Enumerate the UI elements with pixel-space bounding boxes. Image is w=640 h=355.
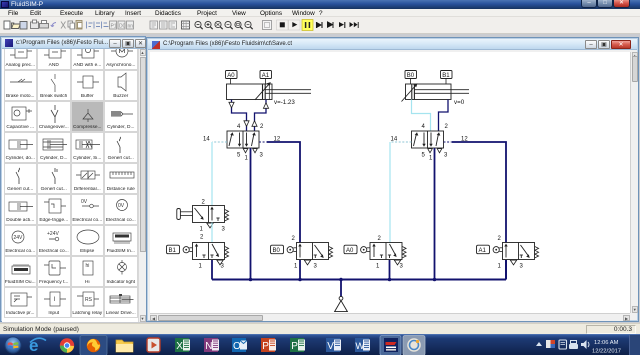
svg-text:2: 2 — [202, 200, 206, 206]
svg-text:B0: B0 — [273, 248, 281, 254]
svg-text:2: 2 — [260, 124, 264, 130]
svg-text:3: 3 — [400, 264, 404, 270]
OneNote — [204, 338, 219, 352]
limit valve A0 (3/2 roller, not actuated) — [370, 243, 402, 260]
valve B port labels — [391, 124, 469, 162]
svg-text:D0: D0 — [119, 24, 126, 30]
svg-text:A1: A1 — [479, 248, 487, 254]
wire cylinder A rod-port to valve A port 2 — [255, 100, 267, 132]
svg-text:B1: B1 — [169, 248, 177, 254]
Visio — [326, 338, 341, 352]
position tag B1 — [441, 71, 453, 79]
svg-text:A1: A1 — [262, 73, 270, 79]
valve A pilot 14 dashed stub — [212, 141, 227, 143]
valve B : 5/2-way double-pilot valve — [412, 131, 444, 148]
svg-text:1: 1 — [200, 227, 204, 233]
svg-text:2: 2 — [200, 235, 204, 241]
FluidSIM running (pressed) — [380, 336, 401, 355]
flow arrow down (cap line, upper) — [229, 102, 234, 108]
valve B pilot 14 dashed stub — [390, 141, 412, 143]
svg-text:1: 1 — [429, 156, 433, 162]
svg-text:1: 1 — [498, 264, 502, 270]
svg-text:3: 3 — [260, 153, 264, 159]
flow arrow up (rod line) — [263, 103, 268, 109]
flow arrow down (above valve port 4) — [244, 121, 249, 127]
svg-text:4: 4 — [237, 124, 241, 130]
IE — [29, 336, 46, 355]
svg-text:nn: nn — [128, 24, 134, 30]
taskbar — [0, 334, 640, 355]
pushbutton valve (start button 3/2) — [193, 206, 225, 223]
media player — [147, 338, 160, 352]
svg-text:A0: A0 — [346, 248, 354, 254]
wire valve A1 port 1 to supply bus — [505, 260, 507, 280]
svg-text:v=-1.23: v=-1.23 — [274, 99, 295, 106]
paint-like app (button) — [403, 336, 425, 355]
svg-text:12/22/2017: 12/22/2017 — [592, 349, 621, 355]
wire bus to compressed air supply — [340, 280, 342, 297]
valve B pilot 12 dashed stub — [444, 141, 453, 143]
svg-text:P: P — [262, 341, 269, 352]
v scrollbar — [630, 52, 638, 313]
junction node at x=249.5 — [249, 278, 253, 282]
svg-text:24V: 24V — [14, 235, 24, 241]
svg-text:14: 14 — [203, 137, 210, 143]
svg-text:P: P — [291, 341, 298, 352]
svg-text:I: I — [53, 297, 55, 303]
svg-text:3: 3 — [221, 264, 225, 270]
status bar — [0, 323, 640, 334]
library panel window — [0, 36, 146, 322]
valve A port labels — [203, 124, 281, 162]
svg-text:+24V: +24V — [47, 231, 59, 237]
h scrollbar — [150, 313, 630, 321]
valve A1 port labels — [498, 236, 524, 269]
svg-text:2: 2 — [445, 124, 449, 130]
valve B0 port labels — [292, 236, 318, 269]
svg-text:5: 5 — [237, 153, 241, 159]
Firefox (active button) — [80, 336, 107, 355]
menu bar — [0, 9, 640, 17]
svg-text:4: 4 — [422, 124, 426, 130]
wire cylinder B rod-port to valve B port 2 — [439, 100, 449, 132]
svg-text:P1: P1 — [111, 24, 117, 30]
svg-text:2: 2 — [292, 236, 296, 242]
sensor tick A0 — [230, 79, 232, 85]
junction node at x=388.5 — [388, 278, 392, 282]
valve A0 port labels — [376, 236, 404, 269]
sensor tick A1 — [265, 79, 267, 85]
wire valve B port 1 to supply bus — [434, 148, 436, 280]
wire cylinder A cap-port to valve A port 4 — [232, 100, 247, 132]
limit valve B1 (3/2 roller, not actuated) — [193, 243, 225, 260]
sensor tick B0 — [410, 79, 412, 85]
svg-text:5: 5 — [422, 153, 426, 159]
svg-text:1: 1 — [245, 156, 249, 162]
junction node at x=299 — [298, 278, 302, 282]
svg-text:O: O — [233, 341, 241, 352]
svg-text:0V: 0V — [81, 199, 88, 205]
pushbutton valve port labels — [200, 200, 226, 233]
Publisher — [290, 338, 305, 352]
app title bar — [0, 0, 640, 9]
wire valve A pilot 12 from valve B0 output — [267, 142, 300, 243]
svg-text:RS: RS — [85, 297, 93, 303]
wire cylinder B cap-port to valve B port 4 (unpressurized) — [412, 100, 431, 132]
cylinder A (double-acting, extended) — [227, 82, 312, 100]
position tag B0 — [405, 71, 417, 79]
svg-text:12:06 AM: 12:06 AM — [594, 340, 619, 346]
svg-text:1: 1 — [199, 264, 203, 270]
wire valve A port 1 to supply bus — [250, 148, 252, 280]
cylinder B (double-acting, retracted) — [402, 83, 470, 101]
limit valve A1 (3/2 roller, actuated) — [503, 243, 535, 260]
wire valve B0 port 1 to supply bus — [299, 260, 301, 280]
svg-text:B0: B0 — [407, 73, 415, 79]
svg-text:1: 1 — [294, 264, 298, 270]
svg-text:v=0: v=0 — [454, 99, 465, 106]
svg-text:N: N — [205, 341, 212, 352]
svg-text:2: 2 — [378, 236, 382, 242]
supply bus wire — [212, 279, 506, 281]
svg-text:B1: B1 — [442, 73, 450, 79]
svg-text:X: X — [176, 341, 183, 352]
svg-text:14: 14 — [391, 137, 398, 143]
Explorer folder — [116, 340, 133, 352]
svg-text:3: 3 — [520, 264, 524, 270]
compressed air supply — [335, 296, 348, 311]
svg-text:V: V — [327, 341, 334, 352]
Excel — [175, 338, 190, 352]
document window (circuit) — [146, 37, 639, 322]
wire valve B1 port 1 to supply bus — [211, 260, 213, 280]
wire valve A pilot 14 from pushbutton valve output (unpressurized) — [211, 142, 213, 206]
svg-text:A0: A0 — [227, 73, 235, 79]
position tag A1 — [260, 71, 272, 79]
wire pushbutton port 1 to valve B1 output (unpressurized) — [211, 223, 213, 243]
wire valve B pilot 12 from valve A1 output — [452, 142, 506, 243]
limit valve B0 (3/2 roller, actuated) — [297, 243, 329, 260]
junction node at x=433.5 — [433, 278, 437, 282]
svg-text:3: 3 — [444, 153, 448, 159]
tray — [536, 342, 542, 346]
svg-text:0V: 0V — [118, 203, 125, 209]
Outlook — [232, 338, 247, 352]
svg-text:W: W — [355, 341, 364, 352]
Word — [355, 338, 370, 352]
wire valve A0 port 1 to supply bus — [389, 260, 391, 280]
svg-text:hi: hi — [86, 263, 90, 269]
valve B1 port labels — [199, 235, 225, 270]
start orb — [4, 336, 21, 353]
PowerPoint — [261, 338, 276, 352]
position tag A0 — [226, 71, 238, 79]
svg-text:2: 2 — [498, 236, 502, 242]
flow arrow up (above valve port 2) — [252, 121, 257, 127]
valve A : 5/2-way double-pilot valve — [227, 131, 259, 148]
svg-text:3: 3 — [222, 227, 226, 233]
sensor tick B1 — [445, 79, 447, 85]
junction node at x=340 — [339, 278, 343, 282]
Chrome — [60, 338, 74, 352]
wire valve B pilot 14 from valve A0 output (unpressurized) — [389, 142, 391, 243]
toolbar — [0, 17, 640, 34]
svg-text:1: 1 — [376, 264, 380, 270]
valve A pilot 12 dashed stub — [259, 141, 267, 143]
svg-text:3: 3 — [314, 264, 318, 270]
